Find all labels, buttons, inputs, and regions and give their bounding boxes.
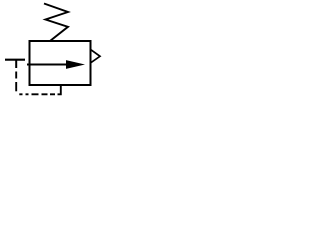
pilot line dashed vertical dash 2	[15, 82, 17, 91]
pilot line dashed horizontal dash 3	[32, 93, 39, 95]
pilot line dashed horizontal dash 5	[50, 93, 55, 95]
regulator body box	[30, 41, 91, 85]
inlet port T stub	[15, 60, 17, 68]
pilot line corner riser	[58, 86, 61, 95]
pilot line dashed vertical dash 1	[15, 72, 17, 79]
background	[0, 0, 138, 99]
vent triangle (outlet)	[91, 50, 100, 63]
flow line (inlet to outlet)	[27, 64, 69, 66]
flow arrowhead	[66, 60, 85, 69]
pilot line dashed horizontal dash 1	[19, 93, 22, 95]
spring (adjustment)	[44, 4, 68, 42]
pilot line dashed horizontal dash 2	[26, 93, 29, 95]
inlet port T bar	[5, 59, 25, 61]
pilot line dashed horizontal dash 4	[42, 93, 48, 95]
